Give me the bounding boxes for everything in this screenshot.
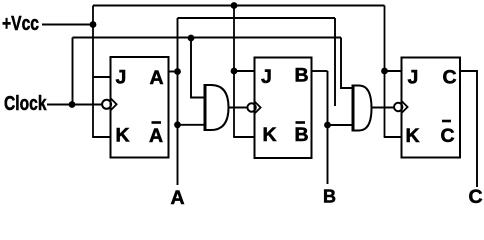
wire U1 J feed xyxy=(93,76,111,78)
flip-flop U1 box xyxy=(111,57,169,158)
junction +Vcc node xyxy=(90,21,97,28)
wire Clock drop to G2 xyxy=(341,38,353,89)
svg-text:+Vcc: +Vcc xyxy=(2,12,39,35)
junction Vcc rail to U2 xyxy=(231,2,238,9)
svg-text:B: B xyxy=(295,124,309,146)
clock bubble U2 xyxy=(247,103,255,111)
node C output stub xyxy=(460,71,477,187)
junction U3 J node xyxy=(381,68,388,75)
wire Clock drop to G1 xyxy=(191,38,204,98)
svg-text:A: A xyxy=(149,125,163,147)
svg-text:K: K xyxy=(116,125,130,147)
AND gate G2 xyxy=(353,85,372,132)
svg-text:C: C xyxy=(443,67,457,89)
junction A to G1 xyxy=(174,121,181,128)
svg-text:J: J xyxy=(116,67,127,89)
wire Vcc drop to U3 xyxy=(384,6,386,138)
svg-text:K: K xyxy=(263,124,277,146)
node A output stub xyxy=(169,71,178,73)
wire U2 K feed xyxy=(233,136,255,138)
svg-text:A: A xyxy=(150,67,164,89)
svg-text:B: B xyxy=(323,187,336,207)
junction A node xyxy=(174,68,181,75)
svg-text:J: J xyxy=(261,66,272,88)
junction Clock rail to G1 xyxy=(188,35,195,42)
wire U1 K feed xyxy=(92,136,111,138)
wire Vcc drop to U1 xyxy=(92,6,94,138)
clock bubble U1 xyxy=(102,100,111,109)
svg-text:K: K xyxy=(406,125,420,147)
svg-text:C: C xyxy=(441,125,455,147)
junction Clock node xyxy=(69,101,76,108)
clock triangle U1 xyxy=(111,99,117,111)
wire G1 output xyxy=(229,107,248,109)
clock triangle U2 xyxy=(255,102,261,114)
svg-text:Clock: Clock xyxy=(4,92,47,115)
wire Clock riser xyxy=(72,38,74,105)
node B output stub xyxy=(312,70,328,72)
wire A drop stub (dead end) xyxy=(334,18,336,106)
wire B feed to G2 xyxy=(328,124,353,126)
wire U2 J feed xyxy=(234,70,255,72)
junction U2 J node xyxy=(231,68,238,75)
wire U3 J feed xyxy=(385,70,403,72)
svg-text:A: A xyxy=(171,187,185,206)
wire Vcc top rail xyxy=(93,5,385,7)
wire G2 output xyxy=(372,107,395,109)
svg-text:J: J xyxy=(408,67,419,89)
clock bubble U3 xyxy=(394,103,402,111)
AND gate G1 xyxy=(205,84,229,131)
junction B to G2 xyxy=(324,122,331,129)
clock triangle U3 xyxy=(402,101,408,113)
wire A feed to G1 xyxy=(178,124,205,126)
svg-text:C: C xyxy=(469,186,483,206)
wire Clock rail xyxy=(73,37,342,39)
flip-flop U3 box xyxy=(402,58,461,158)
wire +Vcc feed xyxy=(42,24,93,26)
wire U3 K feed xyxy=(384,136,402,138)
wire B vertical xyxy=(327,71,329,184)
wire A vertical xyxy=(177,18,179,185)
svg-text:B: B xyxy=(295,65,309,87)
wire A rail xyxy=(178,17,336,19)
wire Vcc drop to U2 xyxy=(233,6,235,138)
flip-flop U2 box xyxy=(255,58,312,159)
wire Clock feed xyxy=(47,104,102,106)
